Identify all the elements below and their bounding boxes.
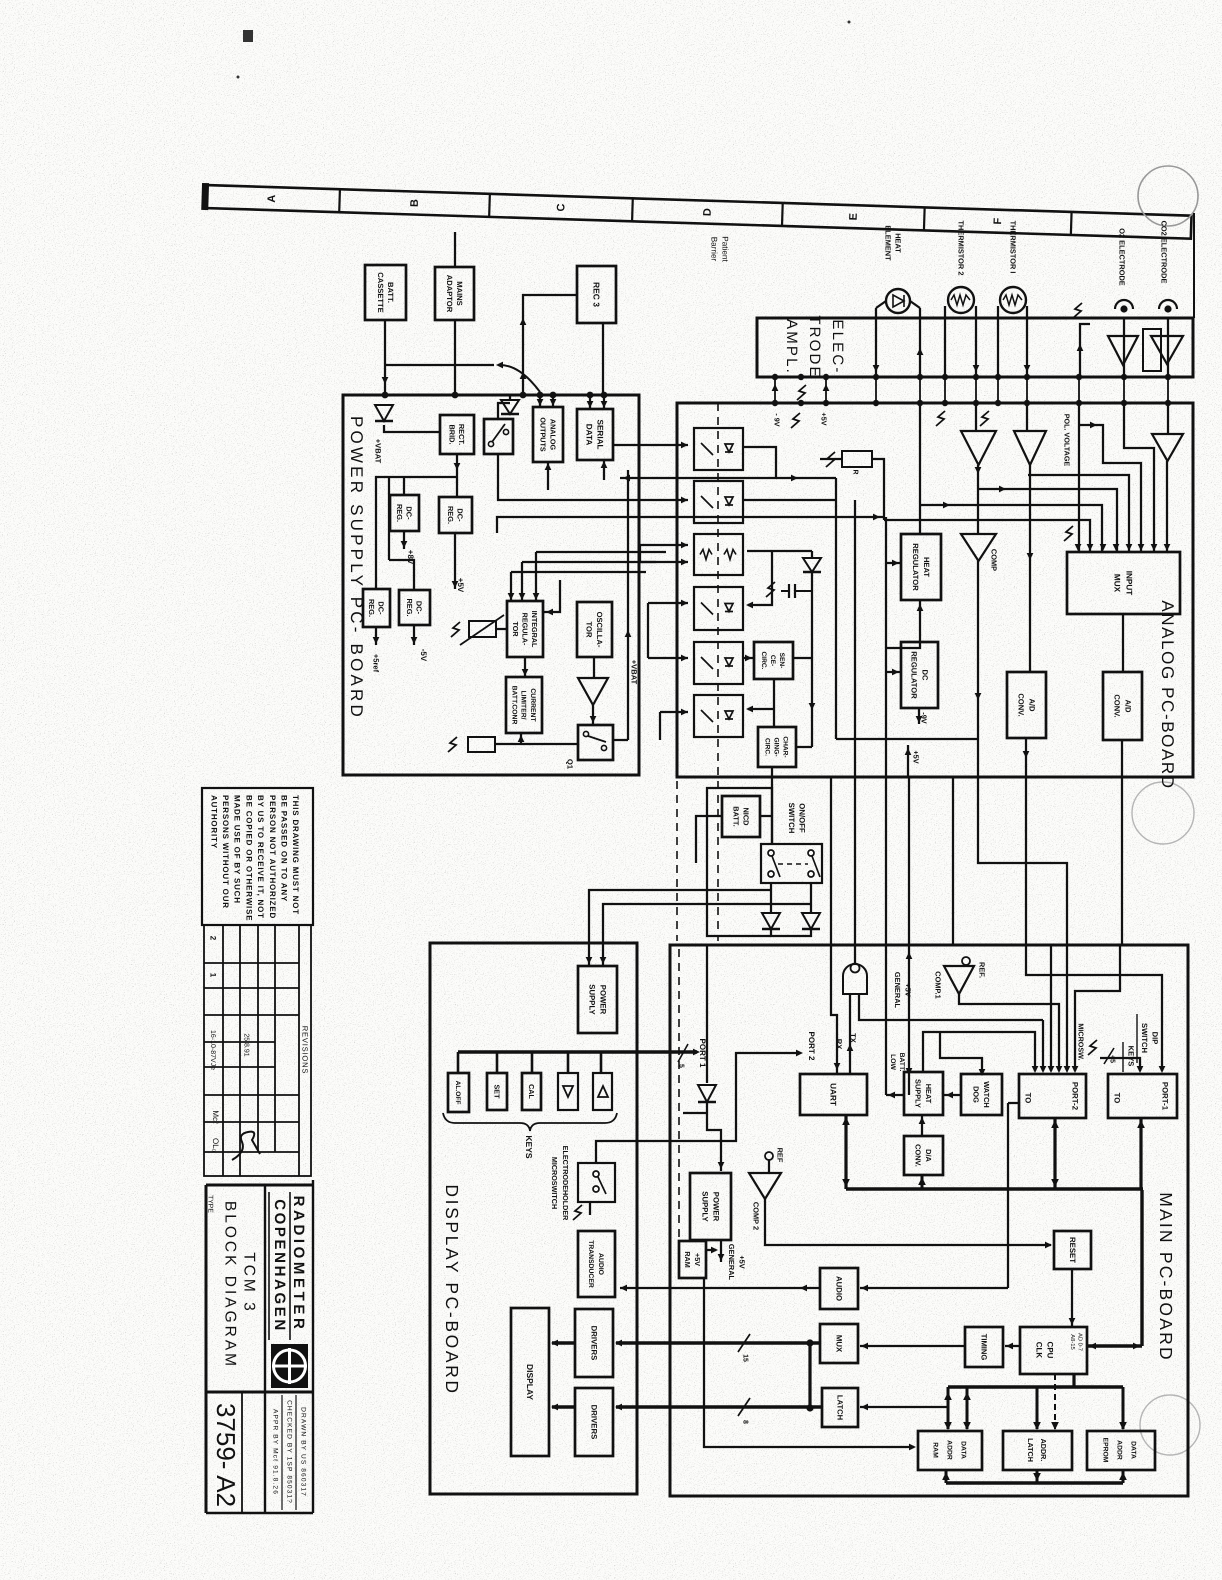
block TIMING <box>965 1327 1003 1367</box>
resistor R <box>842 451 872 467</box>
svg-text:REF: REF <box>775 1148 784 1163</box>
svg-text:POWER: POWER <box>711 1192 720 1222</box>
ref stub comp2 <box>768 1160 770 1173</box>
svg-text:BATT.: BATT. <box>386 282 395 303</box>
block BATT. CASSETTE <box>365 265 406 320</box>
bus link x1027 <box>1026 377 1028 403</box>
punch hole bottom <box>1140 1395 1200 1455</box>
a/d1 out <box>1025 738 1027 945</box>
arrowhead batt low into heat supply <box>906 1068 913 1075</box>
switch pole2 down <box>810 883 812 913</box>
svg-text:POL. VOLTAGE: POL. VOLTAGE <box>1062 414 1071 467</box>
wire bundle to rail <box>497 517 884 533</box>
svg-text:REC 3: REC 3 <box>592 282 602 307</box>
bottom data bus <box>946 1481 1123 1484</box>
thermistor 1 symbol <box>1000 287 1026 313</box>
wire heat reg feed <box>886 562 901 564</box>
svg-text:TX: TX <box>848 1033 857 1043</box>
diode battery 1 <box>762 913 780 929</box>
svg-text:SUPPLY: SUPPLY <box>914 1079 923 1108</box>
arrowhead integral reg <box>519 593 526 600</box>
arrowhead into port-2 x1059 <box>1056 1066 1063 1073</box>
wire resistor to limiter <box>495 743 578 745</box>
junction dot barrier bus x826 <box>823 400 829 406</box>
svg-text:E: E <box>848 213 860 221</box>
latch right feed <box>860 1406 948 1408</box>
arrowhead into sen-ce <box>745 655 752 662</box>
arrowhead heat leg up <box>917 348 924 355</box>
nand gate <box>843 964 867 995</box>
port2 to bus <box>1053 1118 1056 1189</box>
bus link x920 <box>919 377 921 403</box>
bus width 8 marker <box>738 1398 750 1416</box>
opto4 return <box>748 551 772 605</box>
eprom bottom link <box>1122 1470 1125 1483</box>
heat branch to mux <box>920 505 1102 552</box>
opto glyphs 5 <box>701 657 733 669</box>
svg-text:3759- A2: 3759- A2 <box>211 1403 241 1507</box>
svg-text:DISPLAY PC-BOARD: DISPLAY PC-BOARD <box>442 1184 462 1395</box>
arrowhead pol voltage up <box>1077 344 1084 351</box>
bus drop latch <box>1036 1387 1039 1429</box>
integral feed 1 <box>510 572 512 601</box>
junction dot upper bus x1168 <box>1165 374 1171 380</box>
wire mains adaptor to bus <box>454 320 456 395</box>
svg-text:SEN-: SEN- <box>778 653 785 669</box>
arrowhead uart to bus <box>842 1179 850 1187</box>
block A/D CONV 2 <box>1103 672 1142 740</box>
arrowhead amp1 down <box>975 467 982 474</box>
punch hole middle <box>1132 782 1194 844</box>
arrowhead into uart bottom <box>842 1117 850 1125</box>
microswitch box <box>578 1163 615 1202</box>
svg-text:CPU: CPU <box>1046 1342 1055 1359</box>
squiggle capacitor <box>766 582 775 597</box>
integral feed 1h <box>511 571 646 573</box>
wire reg4 feed riser <box>388 477 390 560</box>
svg-text:AMPL.: AMPL. <box>783 319 800 375</box>
block HEAT REGULATOR <box>901 534 941 600</box>
wire rec3 bottom to bus <box>602 323 604 395</box>
heat element signal <box>919 403 921 534</box>
d/a to heat supply <box>921 1115 923 1136</box>
arrowhead into port-2 x1051 <box>1048 1066 1055 1073</box>
svg-text:-5V: -5V <box>419 649 428 662</box>
bus drop latch dashed <box>1054 1374 1056 1429</box>
reset to cpu <box>1071 1269 1073 1327</box>
svg-text:REG.: REG. <box>367 599 376 617</box>
wire rect brid down <box>456 454 458 497</box>
wire to opto3a <box>640 544 688 546</box>
block ADDR LATCH <box>1003 1431 1072 1470</box>
junction dot barrier bus x998 <box>995 400 1001 406</box>
arrowhead port1 keys <box>1137 1066 1144 1073</box>
bus drop eprom <box>1122 1387 1125 1429</box>
thermistor 2 symbol <box>948 287 974 313</box>
opto2 right link <box>743 499 836 501</box>
arrowhead into port-2 x1075 <box>1072 1066 1079 1073</box>
junction dot upper bus x826 <box>823 374 829 380</box>
diode charging <box>803 558 821 572</box>
wire serial right to opto1 <box>613 444 688 446</box>
wire R right <box>872 459 884 520</box>
wire mains adaptor top stub <box>454 232 456 267</box>
svg-text:DC-: DC- <box>415 601 424 615</box>
opto glyphs 1 <box>701 443 733 455</box>
arrowhead into eprom bottom <box>1119 1472 1127 1480</box>
svg-text:+5V: +5V <box>738 1255 747 1268</box>
bundle riser c <box>647 603 649 658</box>
arrowhead into opto3b <box>681 559 688 566</box>
svg-text:DC-: DC- <box>456 508 465 522</box>
junction dot supply bus x553 <box>550 392 557 399</box>
comp branch to mux <box>978 489 1117 552</box>
svg-text:D: D <box>702 208 714 216</box>
feedback loop electrode amp 2 <box>1143 329 1161 371</box>
svg-text:REGULATOR: REGULATOR <box>909 651 918 699</box>
svg-text:BATT.CONR: BATT.CONR <box>510 686 517 725</box>
arrowhead into mux right <box>861 1343 868 1350</box>
block CURRENT LIMITER <box>506 677 542 733</box>
arrowhead a/d1 down <box>1023 751 1030 758</box>
curved arrow at supply bus <box>500 365 540 392</box>
wire reg4 feed <box>389 560 414 590</box>
svg-text:MAINS: MAINS <box>455 281 464 305</box>
wire reg feed left <box>376 477 457 589</box>
svg-text:TRANSDUCER: TRANSDUCER <box>587 1240 594 1288</box>
svg-text:Barrier: Barrier <box>710 237 719 262</box>
svg-text:PORT-2: PORT-2 <box>1070 1082 1079 1111</box>
arrowhead therm2 leg down <box>973 365 980 372</box>
wire limiter bottom stub <box>520 733 522 744</box>
speck marks top left <box>237 21 851 79</box>
svg-text:REGULA-: REGULA- <box>520 613 529 646</box>
arrowhead +VBAT up <box>625 630 632 637</box>
nicd right wire <box>760 815 772 817</box>
capacitor symbol <box>781 584 812 598</box>
svg-text:Mcℓ: Mcℓ <box>211 1110 220 1124</box>
comp output <box>978 561 1067 1070</box>
wire batt branch <box>385 364 494 366</box>
block SEN-CE-CIRC <box>754 642 793 679</box>
arrowhead +5V up <box>823 384 830 391</box>
svg-text:EPROM: EPROM <box>1102 1438 1109 1463</box>
ram bottom link <box>945 1470 948 1483</box>
key AL.OFF <box>448 1073 469 1112</box>
integral feed 3 <box>535 552 537 601</box>
squiggle electrode bus left <box>1073 303 1082 318</box>
svg-text:BE PASSED ON TO ANY: BE PASSED ON TO ANY <box>280 795 289 902</box>
wire Q1 to vbat rail <box>613 739 628 741</box>
diode bottoms join <box>771 929 811 936</box>
block PORT-1 <box>1108 1074 1177 1118</box>
svg-text:ON/OFF: ON/OFF <box>798 803 807 833</box>
svg-text:OUTPUTS: OUTPUTS <box>538 417 547 452</box>
arrowhead into ram left <box>909 1444 916 1451</box>
block WATCH DOG <box>961 1074 1002 1115</box>
key stub x497 <box>496 1052 499 1073</box>
svg-text:RADIOMETER: RADIOMETER <box>290 1196 307 1333</box>
arrowhead into opto3a <box>681 542 688 549</box>
watchdog to heatsupply <box>943 1094 961 1096</box>
integral feed 3h <box>536 551 666 553</box>
block CPU CLK <box>1020 1327 1087 1374</box>
opto glyphs 2 <box>701 496 733 508</box>
svg-text:BY US TO RECEIVE IT, NOT: BY US TO RECEIVE IT, NOT <box>256 795 265 919</box>
svg-text:RECT.: RECT. <box>457 424 466 445</box>
block EPROM <box>1087 1431 1155 1470</box>
opto5 to sence <box>743 657 754 659</box>
arrowhead into analog outputs <box>537 399 544 406</box>
bus link x976 <box>975 377 977 403</box>
optocoupler 1 <box>694 428 743 470</box>
wire bus to serial data x590 <box>589 395 591 409</box>
junction dot upper bus x998 <box>995 374 1001 380</box>
svg-text:- 9V: - 9V <box>772 413 781 426</box>
display supply wire 1 <box>589 890 771 966</box>
block A/D CONV 1 <box>1007 672 1046 738</box>
svg-text:MUX: MUX <box>1113 574 1122 593</box>
arrowhead bus to vertical <box>1133 1343 1140 1350</box>
squiggle input mux <box>1064 526 1073 541</box>
svg-text:ELEMENT: ELEMENT <box>883 225 892 261</box>
wire integral to current limiter <box>524 657 526 677</box>
arrowhead into latch d top <box>1051 1422 1059 1430</box>
block OSCILLATOR <box>577 602 612 657</box>
arrowhead pol branch <box>1090 422 1097 429</box>
svg-text:SERIAL: SERIAL <box>596 419 605 449</box>
amp1 to comp <box>977 465 979 534</box>
svg-text:TOR: TOR <box>511 621 520 637</box>
keys +5 feed <box>1100 1058 1140 1071</box>
arrowhead into input mux <box>1075 544 1082 551</box>
svg-text:DRAWN BY US 860317: DRAWN BY US 860317 <box>300 1407 307 1497</box>
svg-text:ADDR: ADDR <box>1116 1440 1123 1460</box>
svg-text:CLK: CLK <box>1035 1342 1044 1359</box>
relay switch symbol <box>488 424 508 447</box>
block DISPLAY <box>511 1308 549 1456</box>
arrowhead into opto2 <box>681 497 688 504</box>
arrowhead curved <box>496 362 503 369</box>
svg-text:MADE USE OF BY SUCH: MADE USE OF BY SUCH <box>233 795 242 904</box>
audio source riser <box>1007 1103 1009 1288</box>
electrode1 wire <box>1123 318 1125 377</box>
opto1 loop extension <box>776 477 836 479</box>
arrowhead into opto4 <box>681 600 688 607</box>
arrowhead integral reg <box>508 593 515 600</box>
arrowhead into port2 bottom <box>1051 1120 1059 1128</box>
rx line <box>831 777 837 1074</box>
svg-text:HEAT: HEAT <box>893 233 902 253</box>
bus width 15 marker <box>738 1334 750 1352</box>
bus link x826 <box>825 377 827 403</box>
svg-text:Q1: Q1 <box>565 759 574 769</box>
mux bus <box>616 1341 820 1344</box>
svg-text:POWER: POWER <box>598 985 607 1015</box>
arrowhead into opto4 right <box>746 602 753 609</box>
svg-text:DATA: DATA <box>1130 1441 1137 1459</box>
svg-text:+VBAT: +VBAT <box>629 660 638 685</box>
bus drop ram a <box>947 1387 950 1429</box>
comp1 output <box>959 994 1059 1071</box>
svg-text:ANALOG PC-BOARD: ANALOG PC-BOARD <box>1158 600 1177 789</box>
svg-text:THIS DRAWING MUST NOT: THIS DRAWING MUST NOT <box>291 795 300 915</box>
wire feed rail heat/dc <box>885 517 887 945</box>
svg-text:TYPE: TYPE <box>207 1195 214 1213</box>
svg-text:AD 0-7: AD 0-7 <box>1077 1333 1084 1351</box>
barrier bus <box>677 402 1193 405</box>
junction dot supply bus x540 <box>537 392 544 399</box>
arrowhead into heat reg bottom <box>917 604 924 611</box>
svg-text:DRIVERS: DRIVERS <box>589 1405 598 1440</box>
port1 riser <box>706 945 708 1083</box>
op-amp thermistor 2 <box>961 431 996 465</box>
junction dot barrier bus x1168 <box>1165 400 1171 406</box>
dashed bus segment <box>512 394 616 397</box>
svg-text:D/A: D/A <box>924 1149 933 1162</box>
block +5V RAM <box>679 1241 706 1278</box>
junction dot supply bus x385 <box>382 392 389 399</box>
arrowhead into current limiter <box>522 669 529 676</box>
svg-text:REG.: REG. <box>446 506 455 524</box>
arrowhead into display supply 2 <box>600 957 607 964</box>
arrowhead into d/a bottom <box>918 1177 926 1185</box>
svg-text:CONV.: CONV. <box>914 1144 923 1167</box>
arrowhead d/a up <box>919 1117 926 1124</box>
svg-text:A/D: A/D <box>1027 698 1036 712</box>
arrowhead rec3 line upper <box>520 318 527 325</box>
bus link x1168 <box>1167 377 1169 403</box>
svg-text:TO: TO <box>1023 1093 1032 1104</box>
arrowhead into input mux <box>1164 544 1171 551</box>
arrowhead -9V up <box>772 384 779 391</box>
arrowhead into latch <box>861 1404 868 1411</box>
charging right link <box>796 746 812 748</box>
arrowhead -5V <box>411 637 418 644</box>
barrier squiggle <box>451 622 460 637</box>
svg-text:F: F <box>992 217 1004 224</box>
wire bus to serial data x604 <box>603 395 605 409</box>
diode battery 2 <box>802 913 820 929</box>
wire dc reg out <box>918 708 920 724</box>
keys brace <box>443 1113 617 1131</box>
junction dot upper bus x920 <box>917 374 923 380</box>
arrowhead integral reg <box>533 593 540 600</box>
arrowhead port1 dip <box>1159 1066 1166 1073</box>
arrowhead into analog outputs <box>550 399 557 406</box>
bus link x998 <box>997 377 999 403</box>
arrowhead keys bus to port1 <box>693 1049 700 1056</box>
junction dot supply bus x604 <box>601 392 608 399</box>
wire relay to bus <box>498 403 510 419</box>
barrier squiggle <box>791 413 800 428</box>
integral feed 2h <box>522 561 656 563</box>
wire heat reg bottom <box>886 600 920 648</box>
arrowhead into timing <box>1006 1343 1013 1350</box>
key SET <box>487 1073 507 1110</box>
bus link x945 <box>944 377 946 403</box>
svg-text:COPENHAGEN: COPENHAGEN <box>271 1199 288 1333</box>
svg-text:1: 1 <box>209 973 218 978</box>
arrowhead into port-2 x1067 <box>1064 1066 1071 1073</box>
arrowhead into latch top <box>1033 1422 1041 1430</box>
block D/A CONV <box>904 1136 943 1175</box>
arrowhead batt cassette <box>382 377 389 384</box>
svg-text:MICROSW.: MICROSW. <box>1076 1023 1085 1060</box>
svg-text:DISPLAY: DISPLAY <box>525 1364 535 1400</box>
key CAL <box>522 1073 541 1110</box>
main pc-board outline <box>670 945 1188 1496</box>
svg-text:DC: DC <box>920 670 929 681</box>
svg-text:MAIN PC-BOARD: MAIN PC-BOARD <box>1156 1192 1176 1362</box>
svg-text:CHAR-: CHAR- <box>782 736 789 757</box>
arrowhead into ram b top <box>963 1422 971 1430</box>
arrowhead into ram a top <box>944 1422 952 1430</box>
block AUDIO <box>820 1268 858 1309</box>
wire +5V general analog <box>907 745 909 777</box>
block DC-REG. 1 <box>390 495 419 531</box>
+5V general main riser <box>908 777 910 1095</box>
svg-text:AL.OFF: AL.OFF <box>454 1081 461 1105</box>
svg-text:ADDR.: ADDR. <box>1039 1439 1048 1462</box>
svg-text:+5V: +5V <box>693 1253 702 1266</box>
svg-text:GING-: GING- <box>773 737 780 756</box>
wire reg2 out +5V <box>454 533 456 589</box>
integral feed 2 <box>521 562 523 601</box>
svg-text:OL₀: OL₀ <box>211 1138 220 1152</box>
wire reg4 out -5V <box>413 625 415 645</box>
arrowhead +5V <box>452 581 459 588</box>
latch bus <box>616 1405 822 1408</box>
svg-text:BATT.: BATT. <box>731 806 740 826</box>
+5v ram rail <box>704 1278 914 1447</box>
electrode2 signal <box>1167 403 1169 434</box>
svg-text:GENERAL: GENERAL <box>893 972 902 1009</box>
sence branch to opto6 <box>748 708 774 710</box>
tx line <box>849 994 851 1074</box>
arrowhead port 2 <box>796 1050 803 1057</box>
wire dc reg feed <box>886 671 901 673</box>
junction dot upper bus x976 <box>973 374 979 380</box>
svg-text:DATA: DATA <box>960 1441 967 1459</box>
svg-text:PERSON NOT AUTHORIZED: PERSON NOT AUTHORIZED <box>268 795 277 919</box>
junction dot upper bus x1027 <box>1024 374 1030 380</box>
wire opto1 loop back <box>620 447 776 478</box>
bus link x775 <box>774 377 776 403</box>
svg-text:DIP: DIP <box>1151 1032 1160 1045</box>
amplifier triangle PSU <box>578 678 608 705</box>
arrowhead into port-2 x1035 <box>1032 1066 1039 1073</box>
optocoupler 5 <box>694 642 743 684</box>
timing to mux <box>860 1345 965 1347</box>
port1 to bus <box>1139 1118 1142 1189</box>
transformer symbol optocoupler 3 <box>700 550 736 560</box>
svg-text:16-10-87VJe: 16-10-87VJe <box>209 1030 216 1070</box>
arrowhead +8V <box>401 541 408 548</box>
svg-text:RX: RX <box>834 1039 843 1050</box>
svg-text:PORT-1: PORT-1 <box>1160 1082 1169 1111</box>
microswitch wire to port2 <box>596 1053 800 1163</box>
svg-text:BLOCK DIAGRAM: BLOCK DIAGRAM <box>222 1201 239 1369</box>
svg-text:A/D: A/D <box>1123 699 1132 713</box>
svg-text:BRID.: BRID. <box>448 424 457 444</box>
arrowhead rail feed <box>873 514 880 521</box>
arrowhead rx into uart <box>834 1063 841 1070</box>
svg-text:NICD: NICD <box>741 807 750 826</box>
audio wire right <box>860 1287 1008 1289</box>
resistor in PSU <box>468 737 495 752</box>
comparator COMP2 <box>749 1173 781 1199</box>
